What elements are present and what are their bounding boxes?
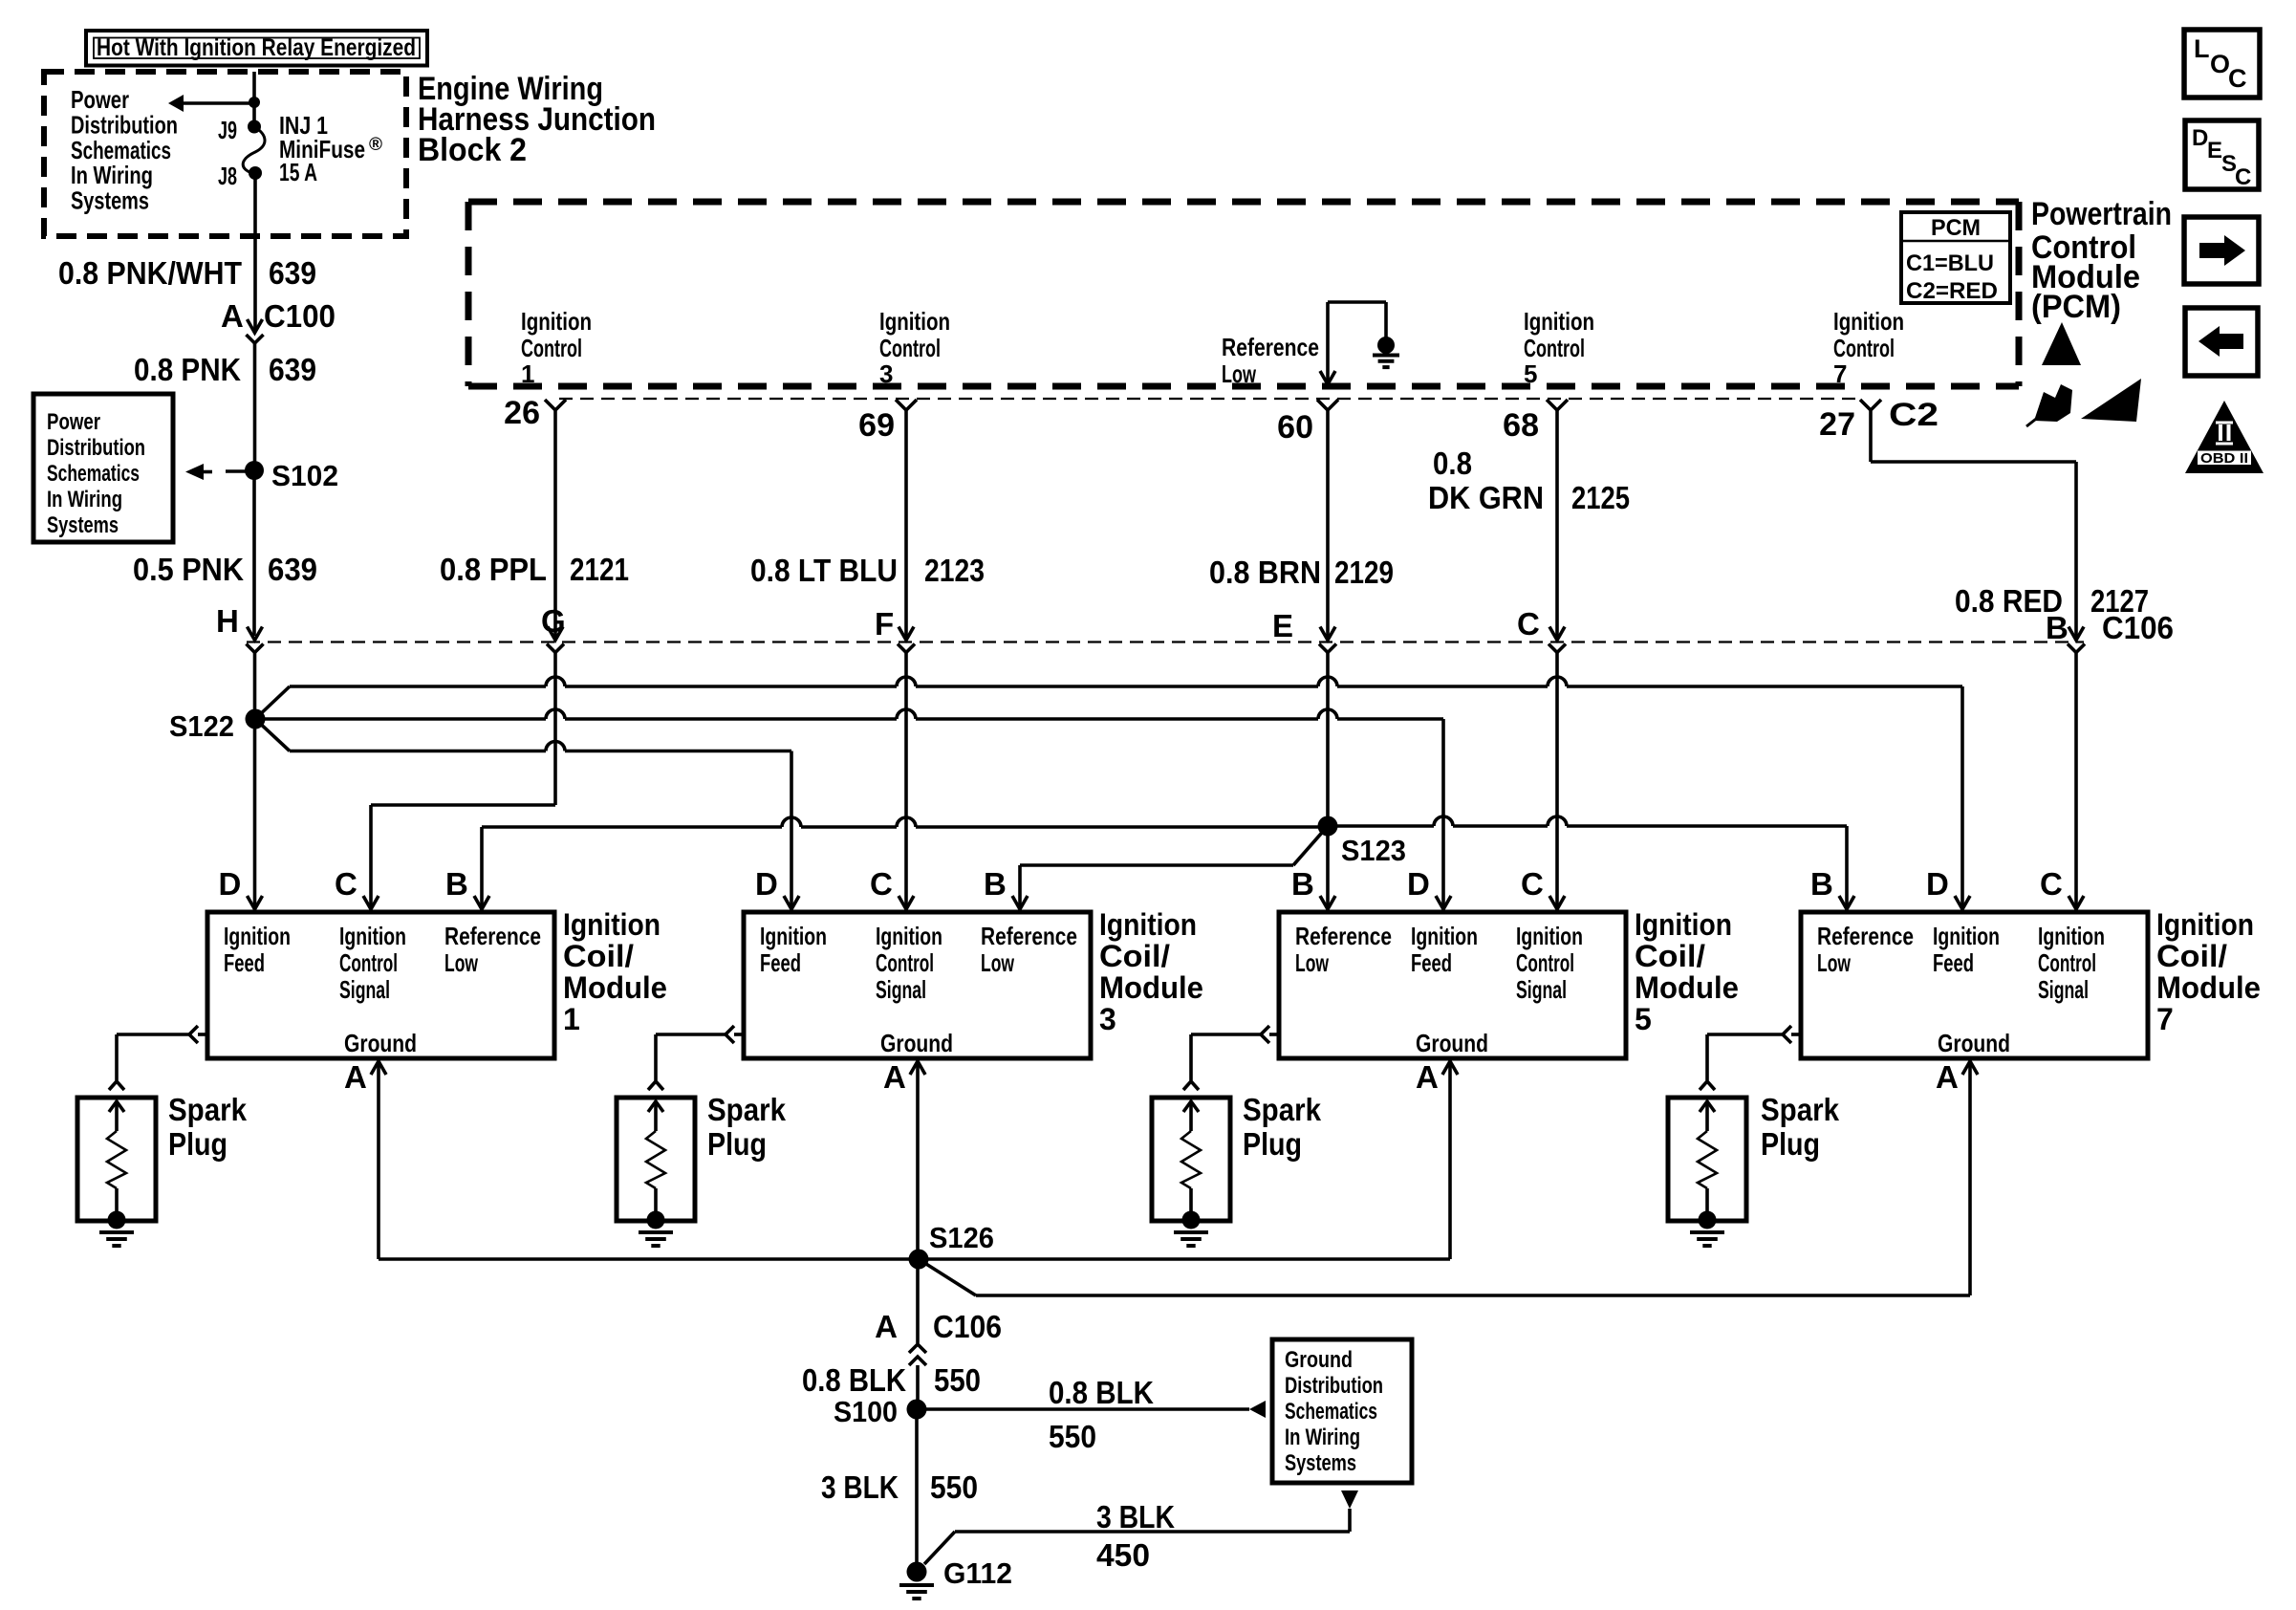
svg-text:G: G (541, 603, 566, 639)
svg-text:Coil/: Coil/ (2156, 939, 2227, 973)
svg-text:Low: Low (981, 948, 1015, 977)
svg-text:OBD II: OBD II (2200, 450, 2248, 467)
svg-text:PCM: PCM (1931, 215, 1981, 241)
svg-text:0.8 PNK: 0.8 PNK (134, 352, 241, 387)
svg-text:Ignition: Ignition (2038, 922, 2105, 950)
svg-text:Ground: Ground (880, 1029, 953, 1057)
svg-text:Spark: Spark (1761, 1092, 1840, 1127)
svg-text:Systems: Systems (71, 186, 149, 215)
svg-text:5: 5 (1635, 1002, 1652, 1036)
svg-text:DK GRN: DK GRN (1428, 480, 1544, 515)
svg-text:68: 68 (1503, 407, 1539, 444)
svg-text:0.8 LT BLU: 0.8 LT BLU (750, 553, 898, 588)
svg-text:Control: Control (521, 334, 582, 362)
svg-text:D: D (755, 866, 778, 902)
svg-text:Module: Module (1635, 970, 1739, 1005)
svg-text:639: 639 (269, 352, 316, 387)
svg-text:Control: Control (879, 334, 941, 362)
svg-text:S126: S126 (929, 1221, 994, 1254)
svg-text:Power: Power (47, 409, 100, 435)
svg-text:0.8: 0.8 (1433, 446, 1472, 481)
svg-text:Low: Low (1295, 948, 1330, 977)
svg-text:Spark: Spark (1243, 1092, 1322, 1127)
svg-text:E: E (1272, 608, 1293, 643)
svg-text:C: C (2040, 866, 2063, 902)
svg-text:Control: Control (2038, 948, 2096, 977)
svg-text:Reference: Reference (1222, 333, 1319, 361)
svg-text:In Wiring: In Wiring (47, 487, 122, 512)
svg-text:Ignition: Ignition (2156, 907, 2254, 942)
svg-text:639: 639 (269, 255, 316, 291)
svg-text:D: D (219, 866, 242, 902)
svg-text:1: 1 (521, 359, 534, 388)
svg-text:Feed: Feed (1933, 948, 1974, 977)
svg-text:Feed: Feed (1411, 948, 1452, 977)
svg-text:Ignition: Ignition (339, 922, 406, 950)
svg-text:Signal: Signal (876, 975, 926, 1004)
svg-text:Distribution: Distribution (1285, 1373, 1383, 1399)
svg-text:B: B (1291, 866, 1314, 902)
svg-text:7: 7 (2156, 1002, 2174, 1036)
svg-text:C: C (1517, 606, 1540, 642)
svg-text:Plug: Plug (707, 1126, 767, 1162)
svg-text:H: H (216, 603, 239, 639)
svg-text:Spark: Spark (707, 1092, 787, 1127)
svg-text:Ignition: Ignition (563, 907, 661, 942)
svg-text:0.8 BLK: 0.8 BLK (1049, 1375, 1154, 1410)
svg-text:C106: C106 (933, 1309, 1002, 1344)
svg-text:Module: Module (563, 970, 667, 1005)
svg-text:Ground: Ground (344, 1029, 417, 1057)
svg-text:L: L (2194, 34, 2210, 63)
svg-text:J8: J8 (218, 162, 237, 190)
svg-text:639: 639 (268, 552, 317, 587)
svg-text:2129: 2129 (1334, 555, 1394, 590)
svg-text:B: B (984, 866, 1007, 902)
svg-text:A: A (1416, 1059, 1439, 1095)
svg-text:2121: 2121 (570, 552, 629, 587)
svg-text:0.8 PPL: 0.8 PPL (440, 552, 547, 587)
svg-text:D: D (2192, 125, 2208, 151)
svg-text:(PCM): (PCM) (2031, 289, 2121, 325)
svg-text:A: A (875, 1309, 898, 1344)
svg-text:Control: Control (339, 948, 398, 977)
svg-text:Feed: Feed (760, 948, 801, 977)
svg-text:Low: Low (444, 948, 479, 977)
svg-text:69: 69 (858, 407, 895, 444)
svg-text:0.5 PNK: 0.5 PNK (133, 552, 244, 587)
svg-text:Reference: Reference (1817, 922, 1914, 950)
svg-text:Ground: Ground (1285, 1347, 1353, 1373)
svg-text:Ignition: Ignition (1411, 922, 1478, 950)
svg-text:Ignition: Ignition (879, 307, 950, 336)
svg-text:B: B (2046, 610, 2069, 645)
svg-text:Signal: Signal (2038, 975, 2089, 1004)
svg-text:2123: 2123 (924, 553, 985, 588)
svg-text:A: A (221, 298, 244, 334)
svg-text:Signal: Signal (1516, 975, 1567, 1004)
svg-text:Control: Control (1524, 334, 1585, 362)
svg-text:550: 550 (930, 1469, 978, 1505)
svg-text:1: 1 (563, 1002, 580, 1036)
svg-text:Ignition: Ignition (1516, 922, 1583, 950)
svg-text:Low: Low (1222, 359, 1257, 388)
svg-text:2125: 2125 (1571, 480, 1630, 515)
svg-text:Feed: Feed (224, 948, 265, 977)
svg-text:Plug: Plug (168, 1126, 227, 1162)
svg-text:Low: Low (1817, 948, 1852, 977)
svg-text:Schematics: Schematics (47, 461, 140, 487)
svg-text:550: 550 (1049, 1419, 1096, 1454)
svg-text:Systems: Systems (1285, 1450, 1356, 1476)
svg-text:C: C (2235, 164, 2251, 190)
svg-text:O: O (2210, 50, 2230, 78)
svg-text:B: B (1810, 866, 1833, 902)
svg-text:Reference: Reference (444, 922, 541, 950)
svg-text:0.8 BRN: 0.8 BRN (1209, 555, 1321, 590)
svg-text:C: C (335, 866, 357, 902)
svg-text:Ignition: Ignition (1933, 922, 2000, 950)
svg-text:In Wiring: In Wiring (1285, 1425, 1360, 1450)
svg-text:26: 26 (504, 395, 540, 431)
svg-text:Control: Control (1833, 334, 1895, 362)
svg-text:3 BLK: 3 BLK (1096, 1499, 1175, 1534)
svg-text:S123: S123 (1341, 834, 1406, 867)
svg-text:D: D (1407, 866, 1430, 902)
svg-text:A: A (344, 1059, 367, 1095)
svg-text:Reference: Reference (1295, 922, 1392, 950)
svg-text:A: A (883, 1059, 906, 1095)
svg-text:E: E (2207, 138, 2222, 163)
svg-text:3: 3 (1099, 1002, 1116, 1036)
svg-text:Distribution: Distribution (47, 435, 145, 461)
svg-text:C: C (2228, 64, 2247, 93)
svg-text:Signal: Signal (339, 975, 390, 1004)
svg-text:G112: G112 (943, 1556, 1012, 1590)
svg-text:Module: Module (2156, 970, 2261, 1005)
svg-text:F: F (875, 606, 894, 642)
svg-text:Ignition: Ignition (1099, 907, 1197, 942)
svg-text:Coil/: Coil/ (563, 939, 634, 973)
svg-text:5: 5 (1524, 359, 1537, 388)
svg-text:Ignition: Ignition (760, 922, 827, 950)
svg-text:Ignition: Ignition (521, 307, 592, 336)
svg-text:550: 550 (934, 1362, 981, 1398)
svg-text:Control: Control (876, 948, 934, 977)
svg-text:Plug: Plug (1761, 1126, 1820, 1162)
svg-text:Ground: Ground (1938, 1029, 2010, 1057)
svg-text:Block 2: Block 2 (418, 132, 527, 168)
svg-text:Ignition: Ignition (1524, 307, 1594, 336)
svg-text:C2: C2 (1889, 397, 1939, 433)
svg-text:Control: Control (1516, 948, 1574, 977)
svg-text:C: C (870, 866, 893, 902)
svg-text:7: 7 (1833, 359, 1847, 388)
svg-text:3 BLK: 3 BLK (821, 1469, 899, 1505)
svg-text:Reference: Reference (981, 922, 1077, 950)
svg-text:Hot With Ignition Relay Energi: Hot With Ignition Relay Energized (97, 34, 416, 61)
svg-text:S102: S102 (271, 459, 338, 492)
svg-text:Ignition: Ignition (1635, 907, 1732, 942)
svg-text:B: B (445, 866, 468, 902)
svg-text:3: 3 (879, 359, 893, 388)
svg-text:C1=BLU: C1=BLU (1906, 250, 1994, 276)
svg-text:S100: S100 (834, 1395, 898, 1428)
svg-text:D: D (1926, 866, 1949, 902)
svg-text:450: 450 (1096, 1537, 1150, 1573)
svg-text:A: A (1936, 1059, 1959, 1095)
svg-text:Coil/: Coil/ (1635, 939, 1705, 973)
svg-text:Plug: Plug (1243, 1126, 1302, 1162)
svg-text:C: C (1521, 866, 1544, 902)
svg-text:0.8 PNK/WHT: 0.8 PNK/WHT (58, 255, 242, 291)
svg-text:J9: J9 (218, 116, 237, 144)
svg-text:27: 27 (1819, 406, 1855, 443)
svg-text:Module: Module (1099, 970, 1203, 1005)
svg-text:Powertrain: Powertrain (2031, 196, 2172, 232)
svg-text:Ignition: Ignition (876, 922, 942, 950)
svg-text:Ignition: Ignition (224, 922, 291, 950)
svg-text:Coil/: Coil/ (1099, 939, 1170, 973)
svg-text:Systems: Systems (47, 512, 119, 538)
svg-text:Schematics: Schematics (1285, 1399, 1377, 1425)
svg-text:Ground: Ground (1416, 1029, 1488, 1057)
svg-text:0.8 BLK: 0.8 BLK (802, 1362, 906, 1398)
svg-text:S122: S122 (169, 709, 234, 743)
svg-text:C2=RED: C2=RED (1906, 278, 1998, 304)
svg-text:Spark: Spark (168, 1092, 248, 1127)
svg-text:C106: C106 (2102, 610, 2174, 645)
svg-text:®: ® (369, 135, 382, 155)
svg-text:Ignition: Ignition (1833, 307, 1904, 336)
svg-text:60: 60 (1277, 409, 1313, 446)
svg-text:15 A: 15 A (279, 158, 317, 186)
svg-text:C100: C100 (264, 298, 336, 334)
